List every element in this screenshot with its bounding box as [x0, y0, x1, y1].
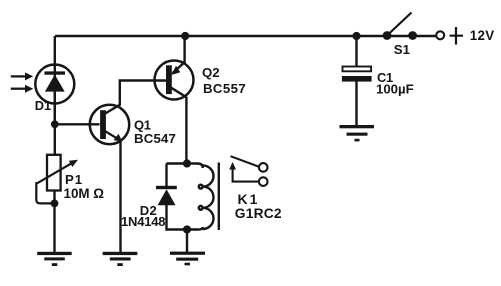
svg-text:BC547: BC547 — [134, 131, 176, 146]
svg-text:G1RC2: G1RC2 — [235, 206, 282, 221]
svg-text:BC557: BC557 — [203, 81, 246, 96]
svg-text:12V: 12V — [470, 28, 495, 43]
svg-text:10M Ω: 10M Ω — [64, 186, 105, 201]
svg-text:S1: S1 — [394, 42, 410, 57]
svg-text:1N4148: 1N4148 — [121, 214, 165, 229]
svg-text:Q2: Q2 — [202, 65, 220, 80]
svg-text:P1: P1 — [65, 172, 83, 187]
svg-text:D1: D1 — [35, 98, 51, 113]
svg-text:K1: K1 — [238, 191, 260, 207]
svg-text:100µF: 100µF — [376, 82, 414, 97]
